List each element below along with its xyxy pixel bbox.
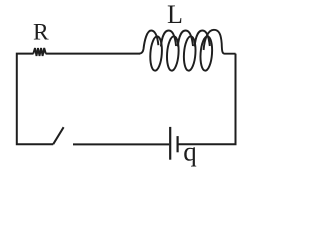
inductor L : entry lead and arch 1 xyxy=(140,31,159,54)
inductor L : loop 3 xyxy=(183,36,197,71)
wire: left + top-left segment + bottom-left segment xyxy=(17,54,53,145)
svg-text:R: R xyxy=(33,19,49,45)
inductor L : arch 3 xyxy=(178,31,193,47)
capacitor plate left (long) xyxy=(169,127,171,160)
inductor L : loop 4 xyxy=(199,36,213,71)
capacitor plate right (short) xyxy=(177,136,179,152)
inductor L : arch 2 xyxy=(161,31,176,47)
wire: top (resistor to inductor) xyxy=(46,53,140,55)
switch blade xyxy=(53,127,63,144)
wire: bottom middle (switch to capacitor) xyxy=(73,143,169,145)
svg-text:q: q xyxy=(183,137,197,167)
resistor R xyxy=(33,48,46,56)
inductor L : loop 1 xyxy=(149,36,163,71)
wire: right side (top corner down to bottom-right corner) xyxy=(179,54,236,145)
inductor L : arch 4 xyxy=(195,31,210,47)
inductor L : loop 2 xyxy=(166,36,180,71)
svg-text:L: L xyxy=(167,0,183,29)
inductor L : exit arch and stub to right corner xyxy=(204,30,236,54)
